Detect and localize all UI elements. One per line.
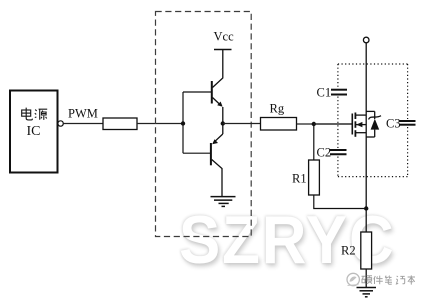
svg-text:C3: C3 [386, 117, 401, 131]
resistor Rg [261, 102, 297, 131]
svg-text:C2: C2 [317, 146, 332, 160]
wire R2 to ground [365, 269, 367, 287]
svg-text:R2: R2 [341, 244, 356, 258]
ground output stage [357, 288, 377, 297]
node gate branch junction [312, 122, 316, 126]
IC box U1 电源IC [10, 91, 58, 173]
logo 硬件笔记本 watermark [341, 268, 431, 294]
capacitor C1 [317, 86, 348, 100]
wire gate node down to R1 [313, 124, 315, 160]
wire base bus to Q2 base [183, 152, 210, 154]
capacitor C2 [317, 146, 347, 160]
capacitor C3 [386, 117, 416, 131]
笔 [385, 276, 392, 285]
硬 [362, 276, 373, 284]
power Vcc symbol [214, 30, 235, 50]
transistor Q2 PNP [211, 124, 223, 197]
transistor Q1 NPN [212, 50, 223, 124]
wire drain vertical main line [365, 43, 367, 232]
ground driver stage [211, 197, 236, 207]
svg-text:R1: R1 [292, 172, 307, 186]
diode body diode of M1 [366, 111, 381, 137]
resistor R-in (unlabeled series resistor) [103, 118, 137, 130]
wire Rg to gate [297, 123, 352, 125]
terminal circle drain top [363, 37, 369, 43]
watermark SZRYC [179, 201, 416, 279]
text 源 (yuan) drawn as path [35, 109, 47, 120]
wire base bus vertical [182, 92, 184, 153]
wire base bus to Q1 base [183, 91, 211, 93]
svg-text:C1: C1 [317, 86, 332, 100]
dashed box driver stage [156, 12, 252, 237]
svg-text:IC: IC [27, 124, 41, 139]
pin circle of IC output [58, 121, 63, 126]
本 [408, 275, 415, 284]
node source/R2 junction [364, 206, 368, 210]
node driver output junction [221, 121, 225, 125]
node base bus junction [181, 121, 185, 125]
svg-text:Rg: Rg [270, 102, 285, 116]
wire IC pin to input resistor [63, 123, 103, 125]
记 [396, 276, 405, 284]
wire driver output to Rg [223, 123, 261, 125]
resistor R2 [341, 232, 372, 269]
件 [374, 276, 383, 285]
transistor M1 MOSFET [314, 113, 366, 137]
svg-text:PWM: PWM [68, 107, 98, 121]
svg-text:Vcc: Vcc [214, 30, 235, 44]
dotted box parasitic capacitances [338, 64, 408, 177]
text 电 (dian) drawn as path [22, 108, 33, 120]
resistor R1 [292, 160, 319, 195]
wire input resistor to driver base bus [137, 123, 183, 125]
wire R1 bottom to source node [314, 195, 366, 209]
